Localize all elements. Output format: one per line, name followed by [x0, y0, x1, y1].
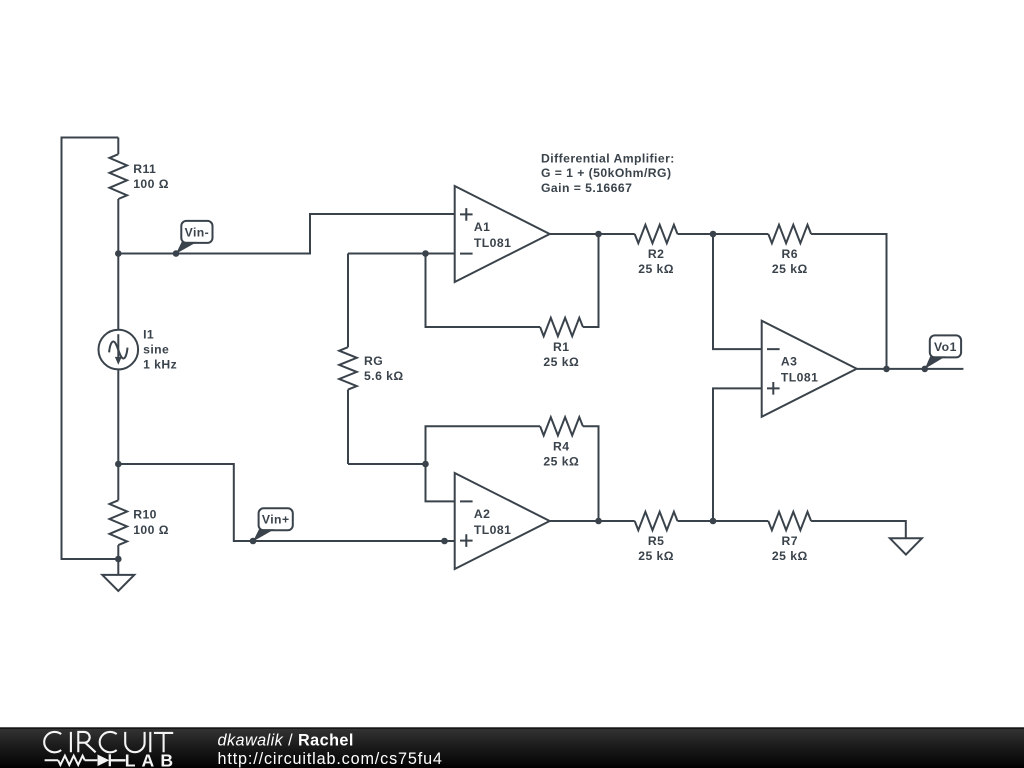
- wire RG top to A1 inverting input: [348, 253, 455, 255]
- svg-text:http://circuitlab.com/cs75fu4: http://circuitlab.com/cs75fu4: [218, 750, 443, 768]
- node A1 output: [595, 231, 602, 238]
- flag Vo1: [925, 356, 946, 369]
- node A2 noninverting input: [441, 538, 448, 545]
- ground left: [102, 575, 134, 591]
- wire left frame: [62, 138, 119, 560]
- logo diode symbol: [98, 755, 110, 767]
- node Vin- junction: [115, 250, 122, 257]
- resistor R11: [117, 138, 119, 155]
- node A3 output junction: [883, 366, 890, 373]
- op-amp A1: [455, 186, 550, 282]
- wire Vin+ branch: [118, 464, 454, 541]
- flag Vin-: [176, 242, 197, 254]
- resistor R2: [635, 225, 678, 243]
- svg-text:Vin+: Vin+: [262, 513, 290, 527]
- wire R2 to R6: [678, 233, 769, 235]
- resistor R1: [540, 318, 583, 336]
- wire A1 feedback right: [583, 234, 599, 327]
- op-amp A3: [762, 321, 857, 417]
- wire A3 noninverting input: [713, 388, 762, 521]
- current source I1: [117, 254, 119, 465]
- wire A1 feedback left: [426, 254, 541, 328]
- wire A3 output: [857, 368, 964, 370]
- CircuitLab logo CIRCUIT wordmark: [44, 732, 173, 752]
- op-amp A2: [455, 473, 550, 569]
- node Vo1 flag attach: [922, 366, 929, 373]
- wire RG bottom run: [348, 463, 426, 465]
- wire R6 down to output: [811, 234, 886, 369]
- logo resistor symbol: [45, 756, 98, 765]
- node Vin+ junction: [115, 461, 122, 468]
- node R2 R6 junction: [710, 231, 717, 238]
- svg-text:Vo1: Vo1: [934, 340, 957, 354]
- resistor R5: [635, 512, 678, 530]
- wire R5 to R7: [678, 520, 769, 522]
- wire A2 feedback right: [583, 426, 599, 521]
- wire Vin- to A1 noninverting input: [118, 214, 454, 254]
- wire A2 output: [550, 520, 635, 522]
- node Vin- flag attach: [173, 250, 180, 257]
- wire A2 inverting input: [426, 464, 455, 501]
- node A1 inverting junction: [422, 250, 429, 257]
- svg-text:dkawalik / Rachel: dkawalik / Rachel: [218, 732, 354, 750]
- svg-text:Vin-: Vin-: [185, 225, 210, 239]
- resistor R7: [768, 512, 811, 530]
- wire A1 output: [550, 233, 635, 235]
- svg-text:LAB: LAB: [125, 751, 179, 768]
- footer bar background: [0, 729, 1024, 768]
- wire R7 to ground: [811, 521, 906, 538]
- resistor R4: [540, 417, 583, 435]
- resistor R10: [117, 464, 119, 500]
- wire A2 feedback left: [426, 426, 541, 464]
- wire A3 inverting input: [713, 234, 762, 349]
- wire ground stub: [117, 559, 119, 575]
- resistor RG: [347, 254, 349, 348]
- node R5 R7 junction: [710, 518, 717, 525]
- ground right: [890, 538, 922, 554]
- node ground junction: [115, 556, 122, 563]
- resistor R6: [768, 225, 811, 243]
- node Vin+ flag attach: [250, 538, 257, 545]
- node A2 output: [595, 518, 602, 525]
- node RG bottom junction: [422, 461, 429, 468]
- flag Vin+: [253, 529, 274, 541]
